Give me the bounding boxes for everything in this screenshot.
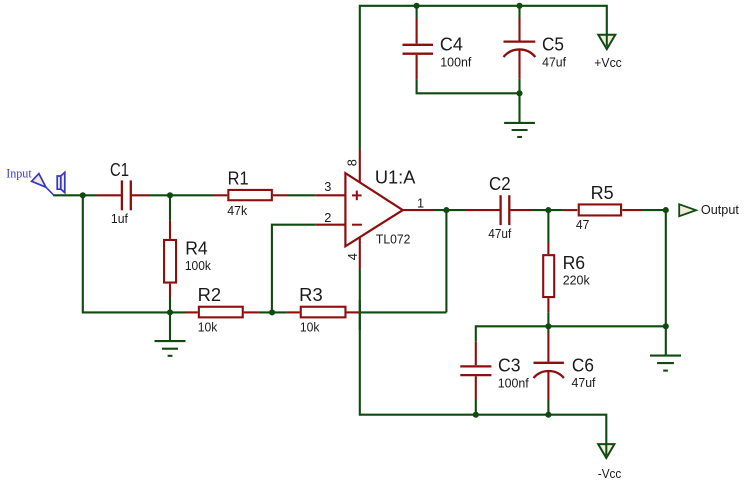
svg-text:8: 8 [345,159,360,166]
svg-text:3: 3 [324,179,331,194]
svg-text:C6: C6 [572,355,594,375]
svg-text:220k: 220k [563,272,591,287]
svg-text:47: 47 [576,217,590,232]
svg-text:C3: C3 [498,355,521,375]
svg-text:+Vcc: +Vcc [594,55,622,70]
svg-text:R2: R2 [198,285,222,305]
svg-text:1uf: 1uf [111,211,128,226]
svg-text:C5: C5 [542,34,564,54]
svg-text:U1:A: U1:A [375,168,416,188]
svg-text:Input: Input [6,167,32,181]
svg-text:100k: 100k [185,258,212,273]
svg-text:47uf: 47uf [542,55,566,70]
svg-text:100nf: 100nf [498,375,529,390]
svg-text:Output: Output [701,202,739,217]
svg-text:2: 2 [324,210,331,225]
svg-text:47uf: 47uf [572,375,596,390]
svg-text:R5: R5 [591,183,614,203]
svg-text:10k: 10k [300,319,320,334]
svg-text:47uf: 47uf [488,226,511,241]
svg-text:R1: R1 [228,168,249,188]
svg-text:-Vcc: -Vcc [598,466,622,481]
svg-text:100nf: 100nf [440,55,471,70]
svg-text:1: 1 [417,196,424,211]
svg-text:C1: C1 [110,160,129,180]
svg-text:4: 4 [345,253,360,260]
svg-text:C4: C4 [440,34,463,54]
svg-text:TL072: TL072 [376,231,411,246]
svg-text:C2: C2 [489,174,511,194]
svg-text:R6: R6 [563,253,586,273]
svg-text:47k: 47k [227,203,248,218]
svg-text:R3: R3 [299,285,323,305]
svg-text:R4: R4 [185,238,208,258]
svg-text:10k: 10k [198,319,218,334]
